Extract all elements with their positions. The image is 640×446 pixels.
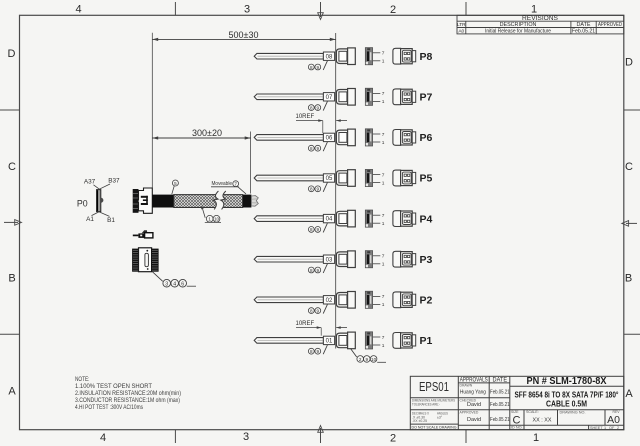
svg-text:9: 9 <box>317 146 320 151</box>
svg-text:1: 1 <box>382 343 385 349</box>
svg-text:APPROVED: APPROVED <box>598 22 622 28</box>
svg-text:D: D <box>8 48 16 60</box>
svg-text:1: 1 <box>382 262 385 268</box>
svg-text:1: 1 <box>604 426 606 430</box>
svg-text:DO NOT SCALE DRAWING: DO NOT SCALE DRAWING <box>412 424 457 429</box>
svg-text:4: 4 <box>173 281 176 287</box>
svg-text:6: 6 <box>181 281 184 287</box>
svg-text:DRAWN: DRAWN <box>460 384 473 388</box>
svg-text:2: 2 <box>359 357 362 362</box>
svg-text:01: 01 <box>326 339 333 345</box>
svg-text:Feb.05.21: Feb.05.21 <box>490 389 510 395</box>
svg-text:8: 8 <box>310 146 313 151</box>
svg-text:1: 1 <box>382 180 385 186</box>
svg-text:8: 8 <box>310 105 313 110</box>
svg-text:2.INSULATION RESISTANCE:20M oh: 2.INSULATION RESISTANCE:20M ohm(min) <box>75 390 181 397</box>
svg-text:8: 8 <box>310 349 313 354</box>
svg-text:2: 2 <box>617 426 619 430</box>
svg-text:A0: A0 <box>458 28 464 34</box>
svg-text:1: 1 <box>382 302 385 308</box>
svg-text:3: 3 <box>244 3 250 15</box>
svg-text:9: 9 <box>317 268 320 273</box>
svg-text:1: 1 <box>382 59 385 65</box>
svg-text:P3: P3 <box>420 254 433 266</box>
svg-text:Huang Yang: Huang Yang <box>460 389 486 395</box>
svg-text:P4: P4 <box>420 213 433 225</box>
svg-text:8: 8 <box>310 65 313 70</box>
svg-text:7: 7 <box>382 294 385 300</box>
svg-text:1.100% TEST OPEN SHORT: 1.100% TEST OPEN SHORT <box>75 383 152 390</box>
svg-text:C: C <box>513 414 521 426</box>
svg-text:XX : XX: XX : XX <box>533 417 552 423</box>
svg-text:9: 9 <box>317 105 320 110</box>
svg-text:7: 7 <box>382 51 385 57</box>
svg-text:7: 7 <box>234 182 237 187</box>
svg-text:P1: P1 <box>420 335 433 347</box>
svg-text:A: A <box>625 388 633 400</box>
svg-text:9: 9 <box>317 187 320 192</box>
svg-text:5: 5 <box>174 181 177 186</box>
svg-text:1: 1 <box>208 217 211 222</box>
svg-text:David: David <box>467 417 481 423</box>
svg-text:1: 1 <box>382 221 385 227</box>
svg-text:3: 3 <box>243 431 249 443</box>
svg-text:2: 2 <box>390 4 396 16</box>
svg-text:8: 8 <box>310 187 313 192</box>
svg-text:REVISIONS: REVISIONS <box>522 15 559 22</box>
svg-text:APPROVED: APPROVED <box>460 410 479 414</box>
svg-text:Feb.05.21: Feb.05.21 <box>572 29 595 35</box>
svg-text:SHEET: SHEET <box>590 426 603 430</box>
svg-text:Feb.05.21: Feb.05.21 <box>490 402 510 408</box>
svg-text:PN # SLM-1780-8X: PN # SLM-1780-8X <box>527 375 607 387</box>
svg-text:ID NO.: ID NO. <box>511 426 523 430</box>
svg-text:B1: B1 <box>107 217 115 224</box>
svg-text:APPROVALS: APPROVALS <box>460 377 488 383</box>
svg-text:Initial Release for Manufactur: Initial Release for Manufacture <box>485 29 551 35</box>
svg-text:B: B <box>8 273 15 285</box>
svg-text:7: 7 <box>382 172 385 178</box>
svg-text:CABLE 0.5M: CABLE 0.5M <box>546 399 587 408</box>
svg-text:02: 02 <box>326 298 333 304</box>
svg-text:07: 07 <box>326 95 333 101</box>
svg-text:8: 8 <box>310 268 313 273</box>
svg-text:1: 1 <box>382 99 385 105</box>
svg-text:1: 1 <box>533 432 539 444</box>
svg-text:EPS01: EPS01 <box>419 380 449 394</box>
svg-text:1: 1 <box>382 140 385 146</box>
svg-text:10REF: 10REF <box>296 321 315 327</box>
svg-text:LTR: LTR <box>457 22 466 28</box>
svg-text:P8: P8 <box>420 51 433 63</box>
svg-text:10: 10 <box>214 217 220 222</box>
svg-text:7: 7 <box>382 132 385 138</box>
svg-text:David: David <box>467 402 481 408</box>
svg-text:P7: P7 <box>420 92 433 104</box>
svg-text:4: 4 <box>100 432 106 444</box>
svg-text:500±30: 500±30 <box>229 30 259 40</box>
svg-text:7: 7 <box>382 254 385 260</box>
svg-text:4: 4 <box>75 3 81 15</box>
svg-text:7: 7 <box>382 91 385 97</box>
svg-text:04: 04 <box>326 217 333 223</box>
svg-text:8: 8 <box>310 308 313 313</box>
svg-text:300±20: 300±20 <box>192 128 222 138</box>
svg-text:P0: P0 <box>77 198 88 208</box>
svg-text:P6: P6 <box>420 132 433 144</box>
svg-text:P5: P5 <box>420 173 433 185</box>
svg-text:8: 8 <box>310 227 313 232</box>
svg-text:B: B <box>625 273 632 285</box>
svg-text:TOLERANCES ARE:-: TOLERANCES ARE:- <box>412 403 441 407</box>
svg-text:03: 03 <box>326 257 333 263</box>
svg-text:7: 7 <box>382 335 385 341</box>
svg-text:P2: P2 <box>420 295 433 307</box>
svg-text:9: 9 <box>317 65 320 70</box>
svg-text:B37: B37 <box>108 178 120 185</box>
svg-text:D: D <box>625 57 633 69</box>
svg-text:2: 2 <box>390 433 396 445</box>
svg-text:A37: A37 <box>84 179 96 186</box>
svg-text:NOTE:: NOTE: <box>75 376 90 383</box>
svg-text:Feb.05.21: Feb.05.21 <box>490 417 510 423</box>
svg-text:06: 06 <box>326 136 333 142</box>
svg-text:08: 08 <box>326 54 333 60</box>
svg-text:9: 9 <box>317 227 320 232</box>
svg-text:SCALE:: SCALE: <box>526 410 539 414</box>
svg-text:SFF 8654 8i TO 8X SATA 7P/F 1: SFF 8654 8i TO 8X SATA 7P/F 180° <box>515 391 619 400</box>
svg-text:9: 9 <box>317 308 320 313</box>
svg-text:DATE: DATE <box>577 22 591 28</box>
svg-text:10REF: 10REF <box>296 114 315 120</box>
svg-text:DESCRIPTION: DESCRIPTION <box>500 22 537 28</box>
svg-text:Moveable: Moveable <box>212 181 233 187</box>
svg-text:9: 9 <box>366 357 369 362</box>
svg-text:A: A <box>8 386 16 398</box>
svg-text:9: 9 <box>317 349 320 354</box>
svg-text:C: C <box>8 161 16 173</box>
svg-text:3.CONDUCTOR RESISTANCE:1M ohm: 3.CONDUCTOR RESISTANCE:1M ohm (max) <box>75 397 180 404</box>
svg-text:05: 05 <box>326 176 333 182</box>
svg-text:DRAWING NO.: DRAWING NO. <box>560 410 586 414</box>
svg-text:3: 3 <box>165 281 168 287</box>
svg-text:±3°: ±3° <box>437 415 443 419</box>
svg-text:4.HI POT TEST :300V AC/10ms: 4.HI POT TEST :300V AC/10ms <box>75 404 143 411</box>
svg-text:C: C <box>625 161 633 173</box>
svg-text:OF: OF <box>609 426 615 430</box>
svg-text:10: 10 <box>371 357 377 362</box>
svg-text:1: 1 <box>531 3 537 15</box>
svg-text:A1: A1 <box>86 216 94 223</box>
svg-text:DATE: DATE <box>493 377 508 383</box>
svg-text:7: 7 <box>382 213 385 219</box>
svg-text:.XX ±0.25: .XX ±0.25 <box>412 419 427 423</box>
svg-text:A0: A0 <box>607 414 620 426</box>
